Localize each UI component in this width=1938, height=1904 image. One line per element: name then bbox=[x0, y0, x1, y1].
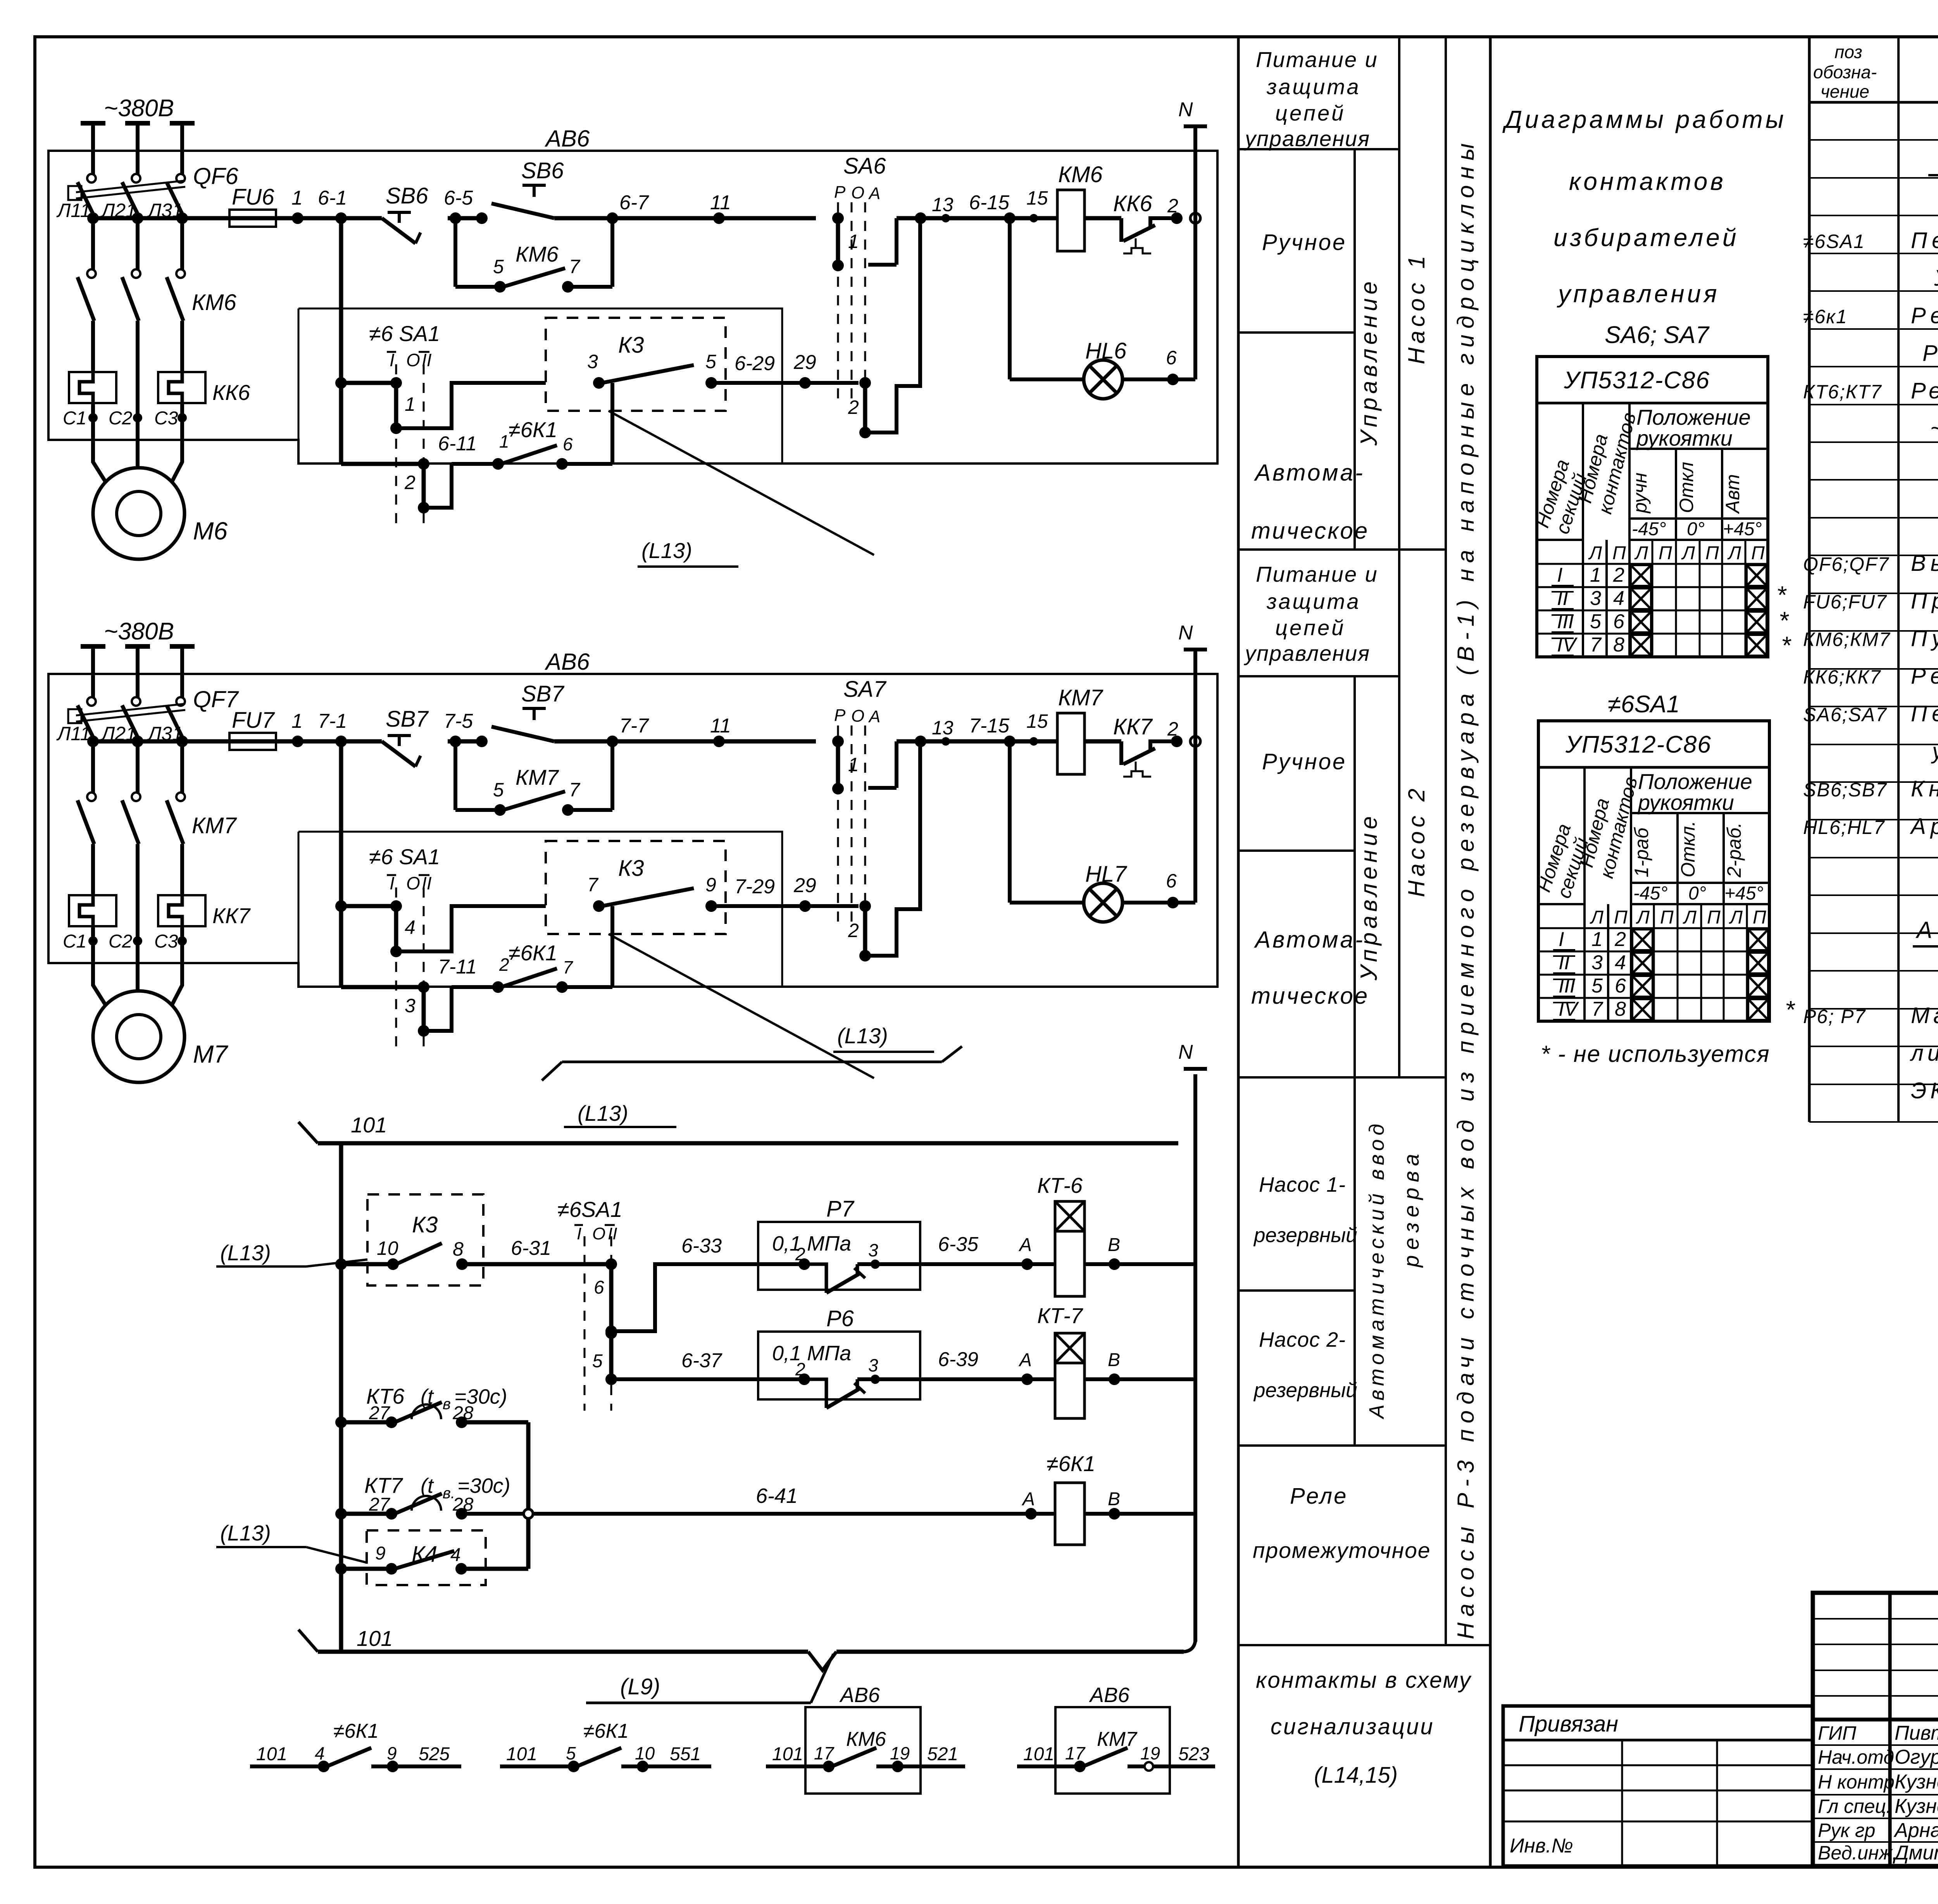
svg-text:АВ6: АВ6 bbox=[545, 649, 590, 675]
svg-text:N: N bbox=[1178, 622, 1193, 644]
svg-text:6-15: 6-15 bbox=[969, 191, 1010, 214]
svg-text:HL6;HL7: HL6;HL7 bbox=[1803, 817, 1885, 838]
svg-text:Откл: Откл bbox=[1676, 462, 1697, 513]
svg-text:9: 9 bbox=[705, 874, 716, 896]
svg-text:17: 17 bbox=[814, 1743, 835, 1763]
svg-text:С1: С1 bbox=[63, 931, 86, 952]
svg-text:КМ6;КМ7: КМ6;КМ7 bbox=[1803, 629, 1891, 650]
svg-text:≠6SА1: ≠6SА1 bbox=[557, 1197, 622, 1222]
svg-text:С1: С1 bbox=[63, 408, 86, 429]
svg-text:рукоятки: рукоятки bbox=[1636, 426, 1733, 450]
svg-text:3: 3 bbox=[868, 1240, 878, 1260]
svg-text:0°: 0° bbox=[1687, 519, 1705, 539]
svg-text:Л11: Л11 bbox=[56, 200, 91, 221]
svg-text:Диаграммы работы: Диаграммы работы bbox=[1502, 105, 1786, 133]
svg-text:29: 29 bbox=[793, 351, 816, 374]
svg-text:6-29: 6-29 bbox=[735, 352, 775, 375]
svg-text:Реле времени РВП72-3121-00У4;: Реле времени РВП72-3121-00У4; bbox=[1911, 378, 1938, 403]
svg-text:0°: 0° bbox=[1688, 883, 1706, 904]
svg-text:9: 9 bbox=[375, 1543, 386, 1564]
svg-text:≠6 SА1: ≠6 SА1 bbox=[369, 321, 440, 346]
svg-text:FU6;FU7: FU6;FU7 bbox=[1803, 591, 1887, 613]
svg-text:4: 4 bbox=[1613, 587, 1624, 610]
svg-text:6: 6 bbox=[1615, 975, 1626, 997]
svg-text:Р: Р bbox=[834, 706, 846, 725]
svg-text:Л: Л bbox=[1727, 543, 1741, 563]
svg-text:3: 3 bbox=[1591, 951, 1603, 974]
svg-text:Реле тепловое: Реле тепловое bbox=[1911, 663, 1938, 689]
svg-text:Выключатель автоматический: Выключатель автоматический bbox=[1911, 551, 1938, 576]
svg-text:Насос 2-: Насос 2- bbox=[1259, 1328, 1346, 1351]
svg-text:П: П bbox=[1753, 907, 1766, 928]
svg-text:6: 6 bbox=[1166, 870, 1177, 892]
svg-text:17: 17 bbox=[1065, 1743, 1086, 1763]
svg-text:КК6: КК6 bbox=[1113, 191, 1152, 216]
svg-text:7: 7 bbox=[569, 256, 581, 277]
svg-text:SА6;SА7: SА6;SА7 bbox=[1803, 704, 1887, 725]
svg-text:7-29: 7-29 bbox=[735, 875, 775, 898]
svg-text:П: П bbox=[1751, 543, 1765, 563]
svg-text:1: 1 bbox=[291, 710, 303, 732]
svg-text:контакты в схему: контакты в схему bbox=[1256, 1668, 1472, 1693]
svg-text:+45°: +45° bbox=[1723, 519, 1762, 539]
svg-text:II: II bbox=[1557, 587, 1568, 610]
svg-text:Реле: Реле bbox=[1290, 1484, 1348, 1509]
svg-text:лизирующий двухпозиционный: лизирующий двухпозиционный bbox=[1910, 1041, 1938, 1066]
svg-text:Кнопка управления: Кнопка управления bbox=[1911, 776, 1938, 801]
svg-text:Л: Л bbox=[1729, 907, 1743, 928]
svg-text:*: * bbox=[1781, 631, 1791, 659]
svg-text:Авт: Авт bbox=[1722, 474, 1743, 514]
svg-text:Вед.инж.: Вед.инж. bbox=[1818, 1842, 1898, 1864]
svg-text:Л11: Л11 bbox=[56, 723, 91, 744]
svg-text:≠6К1: ≠6К1 bbox=[333, 1720, 379, 1742]
svg-text:управления: управления bbox=[1243, 641, 1370, 665]
svg-text:I: I bbox=[1559, 928, 1564, 951]
svg-text:IV: IV bbox=[1557, 634, 1578, 656]
svg-text:Пускатель магнитный: Пускатель магнитный bbox=[1911, 626, 1938, 651]
svg-text:2: 2 bbox=[499, 955, 509, 975]
svg-text:резервный: резервный bbox=[1253, 1224, 1357, 1247]
svg-text:13: 13 bbox=[932, 717, 953, 739]
svg-text:6: 6 bbox=[594, 1277, 604, 1298]
svg-text:11: 11 bbox=[710, 191, 731, 214]
svg-text:5: 5 bbox=[493, 779, 504, 801]
svg-text:Арнаутова: Арнаутова bbox=[1893, 1819, 1938, 1842]
svg-text:В: В bbox=[1108, 1350, 1120, 1370]
svg-text:рукоятки: рукоятки bbox=[1637, 790, 1734, 815]
svg-text:цепей: цепей bbox=[1275, 615, 1345, 640]
svg-text:1: 1 bbox=[848, 754, 859, 775]
svg-text:Инв.№: Инв.№ bbox=[1510, 1835, 1573, 1857]
svg-text:Арматура сигнальная: Арматура сигнальная bbox=[1910, 814, 1938, 839]
svg-text:II: II bbox=[1559, 951, 1570, 974]
svg-text:АВ6: АВ6 bbox=[1089, 1683, 1130, 1707]
svg-text:1: 1 bbox=[405, 393, 416, 415]
svg-text:управления: управления bbox=[1557, 280, 1719, 308]
svg-text:I: I bbox=[577, 1224, 581, 1243]
svg-text:HL7: HL7 bbox=[1085, 862, 1128, 887]
svg-text:5: 5 bbox=[705, 351, 716, 372]
svg-text:SВ7: SВ7 bbox=[521, 681, 565, 706]
svg-text:Питание и: Питание и bbox=[1256, 47, 1378, 72]
svg-text:4: 4 bbox=[315, 1743, 325, 1763]
svg-text:SА6; SА7: SА6; SА7 bbox=[1605, 322, 1710, 348]
svg-text:С2: С2 bbox=[109, 408, 132, 429]
svg-text:2: 2 bbox=[1613, 564, 1624, 586]
svg-text:О: О bbox=[851, 183, 864, 202]
svg-text:ЭКМ-1У ; 0÷0,4 МПа; ~220В: ЭКМ-1У ; 0÷0,4 МПа; ~220В bbox=[1911, 1078, 1938, 1103]
svg-text:* - не используется: * - не используется bbox=[1541, 1041, 1770, 1067]
svg-text:Р: Р bbox=[834, 183, 846, 202]
svg-text:М7: М7 bbox=[193, 1040, 228, 1068]
svg-text:Реле промежуточное: Реле промежуточное bbox=[1911, 303, 1938, 328]
svg-text:(t: (t bbox=[421, 1474, 434, 1497]
svg-text:5: 5 bbox=[566, 1743, 576, 1763]
svg-text:КМ6: КМ6 bbox=[516, 242, 559, 266]
svg-text:(L9): (L9) bbox=[620, 1674, 660, 1699]
svg-text:Огурцов: Огурцов bbox=[1895, 1746, 1938, 1768]
svg-text:Ручное: Ручное bbox=[1262, 749, 1347, 774]
svg-text:2: 2 bbox=[795, 1359, 805, 1379]
svg-text:С3: С3 bbox=[154, 408, 178, 429]
svg-text:3: 3 bbox=[868, 1355, 878, 1375]
svg-text:10: 10 bbox=[635, 1743, 655, 1763]
svg-text:Управление: Управление bbox=[1356, 812, 1382, 981]
svg-text:Кузнецов: Кузнецов bbox=[1895, 1795, 1938, 1818]
svg-text:Р7: Р7 bbox=[826, 1196, 855, 1222]
svg-text:АВ6: АВ6 bbox=[839, 1683, 880, 1707]
svg-text:≠6К1: ≠6К1 bbox=[509, 417, 557, 442]
svg-text:6-39: 6-39 bbox=[938, 1348, 978, 1371]
svg-text:≠6К1: ≠6К1 bbox=[1047, 1451, 1095, 1476]
svg-text:2: 2 bbox=[1614, 928, 1626, 951]
svg-text:КК6;КК7: КК6;КК7 bbox=[1803, 666, 1881, 688]
svg-text:УП5312-С86: УП5312-С86 bbox=[1564, 367, 1710, 394]
svg-text:КК7: КК7 bbox=[212, 903, 251, 928]
svg-text:Пивторак: Пивторак bbox=[1895, 1722, 1938, 1744]
svg-text:Привязан: Привязан bbox=[1519, 1711, 1618, 1737]
svg-text:КМ6: КМ6 bbox=[846, 1728, 886, 1751]
svg-text:101: 101 bbox=[772, 1744, 803, 1764]
svg-text:*: * bbox=[1779, 607, 1789, 634]
svg-text:5: 5 bbox=[1590, 610, 1602, 633]
svg-text:≠6 SА1: ≠6 SА1 bbox=[369, 844, 440, 869]
svg-text:РПУ-2-36400У3Б ; ~220В, 4з: РПУ-2-36400У3Б ; ~220В, 4з bbox=[1922, 341, 1938, 366]
svg-text:1: 1 bbox=[1590, 564, 1601, 586]
svg-text:IV: IV bbox=[1559, 998, 1579, 1020]
svg-text:(L14,15): (L14,15) bbox=[1314, 1763, 1398, 1788]
svg-text:=30с): =30с) bbox=[457, 1474, 510, 1497]
svg-text:SВ6;SВ7: SВ6;SВ7 bbox=[1803, 779, 1887, 801]
svg-text:551: 551 bbox=[670, 1744, 701, 1764]
svg-text:О: О bbox=[406, 350, 420, 370]
svg-text:SА7: SА7 bbox=[843, 677, 887, 702]
svg-text:6-37: 6-37 bbox=[681, 1349, 722, 1372]
svg-text:15: 15 bbox=[1026, 710, 1048, 732]
svg-text:Насос 1: Насос 1 bbox=[1403, 252, 1429, 364]
svg-text:I: I bbox=[390, 350, 395, 370]
svg-text:N: N bbox=[1178, 98, 1193, 121]
svg-text:5: 5 bbox=[1591, 975, 1603, 997]
svg-text:П: П bbox=[1614, 907, 1628, 928]
svg-text:О: О bbox=[851, 706, 864, 725]
svg-text:SВ6: SВ6 bbox=[521, 158, 564, 183]
svg-text:6: 6 bbox=[1166, 347, 1177, 369]
svg-text:резерва: резерва bbox=[1399, 1149, 1423, 1268]
svg-text:Р6; Р7: Р6; Р7 bbox=[1803, 1006, 1866, 1027]
svg-text:чение: чение bbox=[1821, 81, 1869, 102]
svg-text:А: А bbox=[1021, 1489, 1035, 1509]
svg-text:≠6к1: ≠6к1 bbox=[1803, 306, 1848, 327]
svg-text:КТ7: КТ7 bbox=[364, 1473, 403, 1497]
svg-text:К3: К3 bbox=[412, 1212, 438, 1237]
svg-text:защита: защита bbox=[1266, 74, 1361, 99]
svg-text:HL6: HL6 bbox=[1085, 338, 1127, 364]
svg-text:~380В: ~380В bbox=[104, 95, 174, 122]
svg-text:(L13): (L13) bbox=[837, 1024, 888, 1048]
svg-text:4: 4 bbox=[450, 1545, 461, 1565]
svg-text:КМ7: КМ7 bbox=[1058, 685, 1103, 710]
svg-text:15: 15 bbox=[1026, 187, 1048, 209]
svg-text:1: 1 bbox=[291, 187, 303, 209]
svg-text:I: I bbox=[390, 873, 395, 893]
svg-text:≠6SА1: ≠6SА1 bbox=[1608, 691, 1680, 718]
svg-text:КК7: КК7 bbox=[1113, 714, 1153, 739]
svg-text:УП5312-С8Б ; ~220В: УП5312-С8Б ; ~220В bbox=[1934, 265, 1938, 291]
svg-text:~380В: ~380В bbox=[104, 618, 174, 645]
svg-text:промежуточное: промежуточное bbox=[1253, 1538, 1431, 1563]
svg-text:27: 27 bbox=[369, 1494, 391, 1515]
svg-text:сигнализации: сигнализации bbox=[1271, 1714, 1435, 1739]
svg-text:поз: поз bbox=[1835, 42, 1862, 62]
svg-text:А: А bbox=[1018, 1235, 1032, 1255]
svg-text:Рук гр: Рук гр bbox=[1818, 1820, 1875, 1841]
svg-text:избирателей: избирателей bbox=[1554, 224, 1739, 252]
svg-text:защита: защита bbox=[1266, 589, 1361, 613]
svg-text:7-11: 7-11 bbox=[438, 956, 477, 978]
svg-text:5: 5 bbox=[592, 1351, 603, 1372]
svg-text:Р6: Р6 bbox=[826, 1306, 854, 1331]
svg-text:Насос 2: Насос 2 bbox=[1403, 785, 1429, 897]
svg-text:П: П bbox=[1612, 543, 1626, 563]
svg-text:КМ7: КМ7 bbox=[1097, 1728, 1138, 1751]
svg-text:7: 7 bbox=[1590, 634, 1602, 656]
svg-text:6-41: 6-41 bbox=[756, 1484, 798, 1508]
svg-text:*: * bbox=[1785, 996, 1795, 1024]
svg-text:ручн: ручн bbox=[1629, 472, 1651, 514]
svg-text:6-1: 6-1 bbox=[318, 187, 347, 209]
svg-text:2-раб.: 2-раб. bbox=[1723, 822, 1745, 878]
svg-text:7-5: 7-5 bbox=[444, 710, 473, 732]
svg-text:Питание и: Питание и bbox=[1256, 562, 1378, 586]
svg-text:КМ6: КМ6 bbox=[192, 290, 236, 315]
svg-text:6: 6 bbox=[563, 434, 573, 454]
svg-text:Автоматический ввод: Автоматический ввод bbox=[1365, 1120, 1388, 1420]
svg-text:-45°: -45° bbox=[1632, 519, 1666, 539]
svg-text:101: 101 bbox=[506, 1744, 537, 1764]
svg-text:УП5312-С86: УП5312-С86 bbox=[1565, 731, 1712, 758]
svg-text:Л: Л bbox=[1636, 907, 1650, 928]
svg-text:обозна-: обозна- bbox=[1813, 62, 1877, 82]
svg-text:ГИП: ГИП bbox=[1818, 1722, 1857, 1744]
svg-text:≠6SА1: ≠6SА1 bbox=[1803, 231, 1865, 252]
svg-text:А: А bbox=[868, 184, 880, 203]
svg-text:П: П bbox=[1660, 907, 1674, 928]
svg-text:2: 2 bbox=[848, 396, 859, 418]
svg-text:FU6: FU6 bbox=[232, 184, 274, 210]
svg-text:управления: управления bbox=[1243, 126, 1370, 151]
svg-text:III: III bbox=[1557, 610, 1574, 633]
svg-text:N: N bbox=[1178, 1041, 1193, 1063]
svg-text:3: 3 bbox=[587, 351, 598, 372]
svg-text:6: 6 bbox=[1613, 610, 1624, 633]
svg-text:2: 2 bbox=[795, 1244, 805, 1264]
svg-text:2: 2 bbox=[404, 472, 416, 493]
svg-text:1-раб: 1-раб bbox=[1631, 827, 1652, 877]
svg-text:(L13): (L13) bbox=[220, 1241, 271, 1265]
svg-text:101: 101 bbox=[1023, 1744, 1054, 1764]
svg-text:27: 27 bbox=[369, 1403, 391, 1423]
svg-text:С2: С2 bbox=[109, 931, 132, 952]
svg-text:Л: Л bbox=[1634, 543, 1648, 563]
svg-text:≠6К1: ≠6К1 bbox=[509, 941, 557, 965]
svg-text:QF6;QF7: QF6;QF7 bbox=[1803, 553, 1890, 575]
svg-text:Автома-: Автома- bbox=[1254, 460, 1365, 486]
svg-text:4: 4 bbox=[405, 917, 416, 938]
svg-text:(L13): (L13) bbox=[641, 538, 692, 563]
svg-text:-45°: -45° bbox=[1633, 883, 1668, 904]
svg-text:А: А bbox=[868, 707, 880, 726]
svg-text:8: 8 bbox=[453, 1238, 464, 1260]
svg-text:11: 11 bbox=[710, 715, 731, 737]
svg-text:Манометр показывающий сигна-: Манометр показывающий сигна- bbox=[1911, 1003, 1938, 1028]
svg-text:FU7: FU7 bbox=[232, 708, 275, 733]
svg-text:7-1: 7-1 bbox=[318, 710, 347, 732]
svg-text:523: 523 bbox=[1178, 1744, 1209, 1764]
svg-text:≠6К1: ≠6К1 bbox=[583, 1720, 629, 1742]
svg-text:19: 19 bbox=[1140, 1743, 1160, 1763]
svg-text:П: П bbox=[1705, 543, 1719, 563]
svg-text:Ручное: Ручное bbox=[1262, 230, 1347, 255]
svg-text:Аппаратура по месту: Аппаратура по месту bbox=[1916, 917, 1938, 943]
svg-text:тическое: тическое bbox=[1251, 983, 1369, 1009]
svg-text:Автома-: Автома- bbox=[1254, 927, 1365, 953]
svg-text:в: в bbox=[443, 1396, 451, 1413]
svg-text:5: 5 bbox=[493, 256, 504, 277]
svg-text:3: 3 bbox=[1590, 587, 1601, 610]
svg-text:Нач.отд: Нач.отд bbox=[1818, 1746, 1894, 1768]
svg-text:С3: С3 bbox=[154, 931, 178, 952]
svg-text:П: П bbox=[1659, 543, 1672, 563]
svg-text:13: 13 bbox=[932, 194, 953, 215]
svg-text:Л: Л bbox=[1681, 543, 1695, 563]
svg-text:19: 19 bbox=[890, 1743, 910, 1763]
svg-text:К3: К3 bbox=[618, 856, 644, 881]
svg-text:В: В bbox=[1108, 1235, 1120, 1255]
svg-text:4: 4 bbox=[1615, 951, 1626, 974]
svg-text:КМ7: КМ7 bbox=[192, 813, 237, 838]
svg-text:0,1 МПа: 0,1 МПа bbox=[772, 1342, 851, 1365]
svg-text:Н контр: Н контр bbox=[1818, 1771, 1895, 1793]
svg-text:2: 2 bbox=[848, 920, 859, 941]
svg-text:7: 7 bbox=[587, 874, 599, 896]
svg-text:6-11: 6-11 bbox=[438, 432, 477, 455]
svg-text:КТ-7: КТ-7 bbox=[1037, 1303, 1083, 1328]
svg-text:контактов: контактов bbox=[1569, 167, 1726, 195]
svg-text:А: А bbox=[1018, 1350, 1032, 1370]
svg-text:Насос 1-: Насос 1- bbox=[1259, 1173, 1346, 1196]
svg-text:Кузнецов: Кузнецов bbox=[1895, 1771, 1938, 1793]
svg-text:*: * bbox=[1776, 581, 1787, 609]
svg-text:SВ7: SВ7 bbox=[386, 706, 429, 732]
svg-text:Дмитриева: Дмитриева bbox=[1893, 1842, 1938, 1864]
svg-text:525: 525 bbox=[419, 1744, 450, 1764]
svg-text:6-5: 6-5 bbox=[444, 187, 473, 209]
svg-text:101: 101 bbox=[256, 1744, 287, 1764]
svg-text:цепей: цепей bbox=[1275, 101, 1345, 125]
svg-text:6-31: 6-31 bbox=[511, 1237, 551, 1260]
svg-text:10: 10 bbox=[377, 1237, 398, 1259]
svg-text:29: 29 bbox=[793, 874, 816, 897]
svg-text:1: 1 bbox=[499, 431, 509, 451]
svg-text:Переключатель универсальный: Переключатель универсальный bbox=[1911, 228, 1938, 253]
svg-text:3: 3 bbox=[405, 995, 416, 1017]
svg-text:Л: Л bbox=[1588, 543, 1602, 563]
svg-text:Л: Л bbox=[1590, 907, 1604, 928]
svg-text:SВ6: SВ6 bbox=[386, 183, 428, 208]
svg-text:1: 1 bbox=[848, 231, 859, 252]
svg-text:Переключатель: Переключатель bbox=[1911, 701, 1938, 726]
svg-text:резервный: резервный bbox=[1253, 1379, 1357, 1402]
svg-text:(L13): (L13) bbox=[220, 1521, 271, 1545]
svg-text:101: 101 bbox=[357, 1626, 393, 1651]
svg-text:К3: К3 bbox=[618, 333, 644, 358]
svg-text:6-7: 6-7 bbox=[619, 191, 649, 214]
svg-text:6-35: 6-35 bbox=[938, 1233, 979, 1256]
svg-text:П: П bbox=[1707, 907, 1721, 928]
svg-text:7: 7 bbox=[1591, 998, 1604, 1020]
svg-text:КТ-6: КТ-6 bbox=[1037, 1173, 1083, 1198]
svg-text:~220В; tв. =30с: ~220В; tв. =30с bbox=[1930, 416, 1938, 441]
svg-text:7: 7 bbox=[569, 779, 581, 801]
svg-text:I: I bbox=[1557, 564, 1562, 586]
svg-text:М6: М6 bbox=[193, 517, 228, 545]
svg-text:АВ6: АВ6 bbox=[545, 126, 590, 152]
svg-text:521: 521 bbox=[927, 1744, 958, 1764]
svg-text:II: II bbox=[608, 1224, 617, 1243]
svg-text:1: 1 bbox=[1591, 928, 1603, 951]
svg-text:Откл.: Откл. bbox=[1677, 821, 1699, 877]
svg-text:7-7: 7-7 bbox=[619, 715, 649, 737]
svg-text:8: 8 bbox=[1613, 634, 1624, 656]
svg-text:SА6: SА6 bbox=[843, 153, 886, 179]
svg-text:6-33: 6-33 bbox=[681, 1235, 722, 1257]
svg-text:О: О bbox=[592, 1224, 605, 1243]
svg-text:КК6: КК6 bbox=[212, 380, 250, 405]
svg-text:Управление: Управление bbox=[1356, 277, 1382, 446]
svg-text:III: III bbox=[1559, 975, 1575, 997]
svg-text:Л: Л bbox=[1683, 907, 1697, 928]
svg-text:(L13): (L13) bbox=[578, 1101, 628, 1125]
svg-text:7: 7 bbox=[563, 957, 573, 977]
svg-text:КМ6: КМ6 bbox=[1058, 162, 1103, 187]
svg-text:+45°: +45° bbox=[1724, 883, 1764, 904]
svg-text:тическое: тическое bbox=[1251, 518, 1369, 544]
svg-text:О: О bbox=[406, 873, 420, 893]
svg-text:Предохранитель: Предохранитель bbox=[1911, 588, 1938, 613]
svg-text:КТ6;КТ7: КТ6;КТ7 bbox=[1803, 381, 1882, 403]
